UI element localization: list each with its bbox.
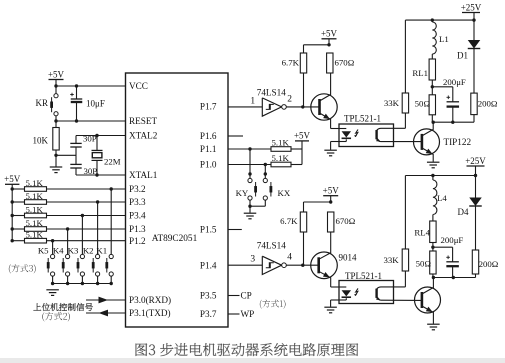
svg-text:5.1K: 5.1K bbox=[26, 178, 44, 188]
svg-text:K5: K5 bbox=[38, 245, 49, 255]
svg-text:P3.1(TXD): P3.1(TXD) bbox=[129, 308, 171, 318]
svg-text:33K: 33K bbox=[383, 255, 399, 265]
svg-text:P1.4: P1.4 bbox=[200, 260, 217, 270]
svg-text:WP: WP bbox=[241, 309, 255, 319]
svg-text:K4: K4 bbox=[53, 245, 64, 255]
svg-text:+5V: +5V bbox=[4, 174, 21, 184]
svg-text:XTAL2: XTAL2 bbox=[129, 131, 158, 141]
svg-text:P1.1: P1.1 bbox=[200, 144, 217, 154]
svg-text:P1.7: P1.7 bbox=[200, 102, 217, 112]
svg-text:4: 4 bbox=[287, 253, 292, 263]
svg-text:XTAL1: XTAL1 bbox=[129, 170, 158, 180]
svg-text:P1.2: P1.2 bbox=[129, 236, 146, 246]
svg-text:50Ω: 50Ω bbox=[415, 98, 431, 108]
svg-text:5.1K: 5.1K bbox=[272, 153, 290, 163]
svg-text:200Ω: 200Ω bbox=[478, 98, 498, 108]
svg-text:3: 3 bbox=[250, 255, 255, 265]
svg-text:670Ω: 670Ω bbox=[335, 58, 355, 68]
svg-text:+5V: +5V bbox=[321, 29, 338, 39]
svg-text:670Ω: 670Ω bbox=[336, 216, 356, 226]
svg-text:KY: KY bbox=[236, 188, 249, 198]
svg-text:K3: K3 bbox=[68, 245, 79, 255]
svg-text:+5V: +5V bbox=[323, 186, 340, 196]
svg-text:1: 1 bbox=[250, 96, 255, 106]
svg-text:KR: KR bbox=[35, 98, 48, 108]
svg-text:9014: 9014 bbox=[339, 252, 358, 262]
svg-text:+25V: +25V bbox=[465, 156, 486, 166]
svg-text:L1: L1 bbox=[439, 34, 449, 44]
svg-text:D1: D1 bbox=[457, 51, 468, 61]
svg-text:P3.3: P3.3 bbox=[129, 197, 146, 207]
svg-text:74LS14: 74LS14 bbox=[257, 240, 287, 250]
svg-text:VCC: VCC bbox=[129, 81, 148, 91]
svg-text:+25V: +25V bbox=[461, 2, 482, 12]
svg-text:CP: CP bbox=[241, 291, 252, 301]
svg-text:TPL521-1: TPL521-1 bbox=[344, 113, 381, 123]
svg-text:200μF: 200μF bbox=[441, 235, 464, 245]
svg-text:+5V: +5V bbox=[294, 131, 311, 141]
svg-text:L4: L4 bbox=[437, 193, 447, 203]
svg-text:10K: 10K bbox=[33, 136, 49, 146]
svg-text:RL1: RL1 bbox=[412, 68, 428, 78]
svg-text:P1.0: P1.0 bbox=[200, 160, 217, 170]
svg-text:6.7K: 6.7K bbox=[280, 216, 298, 226]
svg-text:200μF: 200μF bbox=[443, 77, 466, 87]
svg-text:10μF: 10μF bbox=[86, 99, 105, 109]
svg-text:33K: 33K bbox=[384, 98, 400, 108]
svg-text:5.1K: 5.1K bbox=[26, 218, 44, 228]
svg-text:P1.5: P1.5 bbox=[200, 225, 217, 235]
svg-text:5.1K: 5.1K bbox=[26, 191, 44, 201]
svg-text:22M: 22M bbox=[104, 157, 121, 167]
svg-text:P3.4: P3.4 bbox=[129, 211, 146, 221]
svg-text:P1.6: P1.6 bbox=[200, 131, 217, 141]
svg-text:RL4: RL4 bbox=[414, 228, 430, 238]
svg-text:TIP122: TIP122 bbox=[444, 137, 472, 147]
svg-text:P3.7: P3.7 bbox=[200, 309, 217, 319]
svg-text:6.7K: 6.7K bbox=[282, 58, 300, 68]
svg-text:5.1K: 5.1K bbox=[26, 230, 44, 240]
svg-text:P3.2: P3.2 bbox=[129, 184, 146, 194]
svg-text:RESET: RESET bbox=[129, 116, 157, 126]
svg-text:5.1K: 5.1K bbox=[272, 138, 290, 148]
svg-text:TPL521-1: TPL521-1 bbox=[345, 271, 382, 281]
svg-text:P1.3: P1.3 bbox=[129, 224, 146, 234]
svg-text:AT89C2051: AT89C2051 bbox=[152, 234, 198, 244]
svg-text:KX: KX bbox=[278, 188, 291, 198]
svg-text:50Ω: 50Ω bbox=[416, 259, 432, 269]
svg-text:30P: 30P bbox=[83, 134, 97, 144]
svg-text:74LS14: 74LS14 bbox=[257, 88, 287, 98]
svg-text:30P: 30P bbox=[84, 166, 98, 176]
svg-text:200Ω: 200Ω bbox=[479, 259, 499, 269]
svg-text:+5V: +5V bbox=[48, 69, 65, 79]
svg-text:D4: D4 bbox=[458, 207, 469, 217]
svg-text:K1: K1 bbox=[96, 245, 107, 255]
svg-text:5.1K: 5.1K bbox=[26, 204, 44, 214]
svg-text:K2: K2 bbox=[83, 245, 94, 255]
svg-text:P3.0(RXD): P3.0(RXD) bbox=[129, 295, 171, 305]
svg-text:P3.5: P3.5 bbox=[200, 291, 217, 301]
svg-text:2: 2 bbox=[287, 94, 292, 104]
